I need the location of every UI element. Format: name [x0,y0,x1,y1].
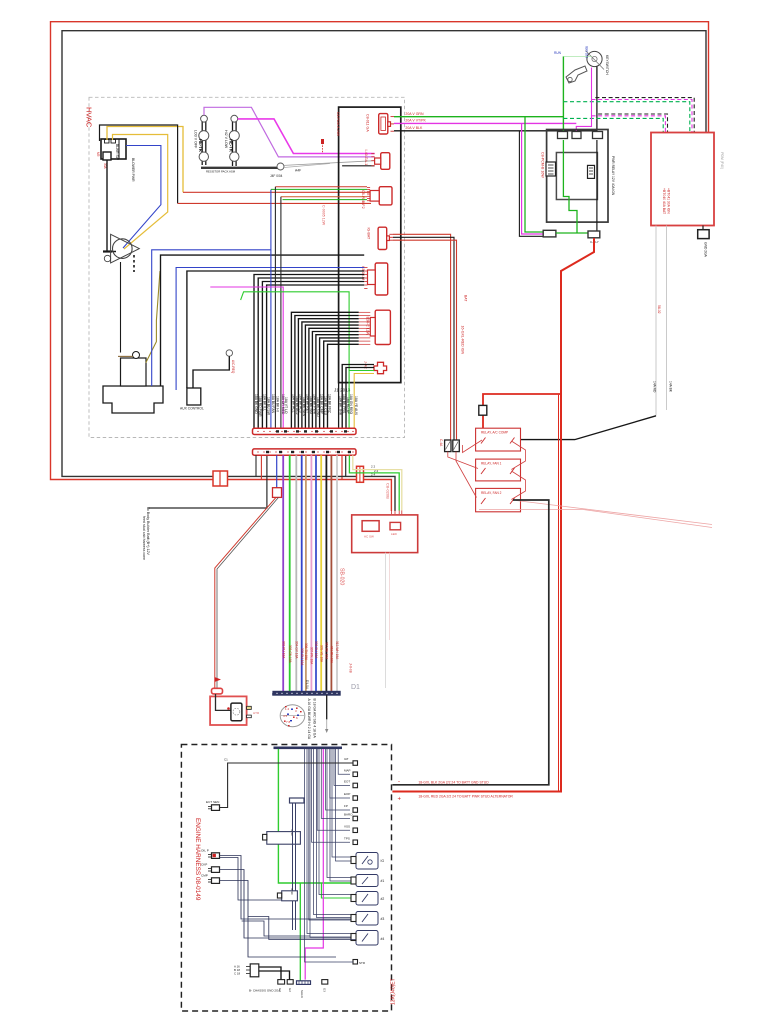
svg-text:TPS: TPS [344,837,350,841]
mode door actuator pedestal base [103,386,163,413]
svg-text:A 16 GA BLWR HI 2 14 GA: A 16 GA BLWR HI 2 14 GA [307,699,311,740]
dashed group2 magenta [592,116,666,133]
svg-text:18A BK GND: 18A BK GND [254,394,258,414]
wire red black pair diagonal to block heater [215,497,276,688]
ignition key switch circle [587,51,602,66]
svg-text:304-GY 18A: 304-GY 18A [294,641,298,659]
svg-text:HVAC: HVAC [85,107,94,128]
wire black connector5 row2 to aux [187,271,364,388]
wire yellow switch to junction [107,127,183,193]
coolant sensor connector [212,805,220,811]
svg-text:RELAY, FAN 2: RELAY, FAN 2 [481,491,502,495]
wire red connector4 c [393,240,457,440]
wire silver trunk [336,455,338,691]
svg-text:305-BU 18A: 305-BU 18A [300,648,304,666]
engine harness dashed box [181,745,391,1012]
svg-text:D1: D1 [351,684,360,691]
wire green connector7 stub [349,370,374,372]
wire red riser to batt bus [260,455,262,479]
blower motor ground dashes [133,255,135,272]
ground terminal 2 [287,980,293,985]
svg-text:18A BK RET: 18A BK RET [305,394,309,413]
wire red connector4 a [393,234,451,440]
connector C4 [378,227,387,249]
blower switch body [101,139,126,159]
dashed group1 green [563,102,689,133]
wire green link connectors [556,232,588,234]
svg-text:307-PK 18A: 307-PK 18A [310,647,314,665]
wire black motor to heater box [120,262,122,353]
wire yellow connector7 [354,374,374,429]
svg-text:IG-BAT: IG-BAT [367,228,371,241]
svg-text:HE-TR: HE-TR [198,139,203,152]
svg-text:B 18 GA A/C SIG 4 18 GA: B 18 GA A/C SIG 4 18 GA [313,699,317,739]
svg-text:HE-TR: HE-TR [229,139,234,152]
injector box 4 [356,912,378,926]
svg-text:KEYSWITCH: KEYSWITCH [605,55,609,75]
connector C3 [379,187,392,205]
shielded cable cap [290,798,305,803]
wire black riser to ground bus [255,455,257,476]
wire yellow trunk [320,455,322,691]
svg-text:G3: G3 [323,988,327,992]
wire mesh run a [220,858,282,901]
wire magenta connector1 [394,122,576,124]
svg-text:C-4A: C-4A [439,439,443,447]
svg-text:308-BU 18A: 308-BU 18A [314,641,318,659]
svg-text:18A VT LO: 18A VT LO [284,397,288,414]
crank sensor connector [212,867,220,873]
svg-text:18-GXL BLK 2GA 2/2 24 TO BATT: 18-GXL BLK 2GA 2/2 24 TO BATT GND STUD [418,780,489,784]
cam sensor connector [212,878,220,884]
svg-text:BLWR SW: BLWR SW [115,144,119,161]
wire gray splice to connector2 [284,161,375,166]
node splice circle [277,163,284,170]
svg-text:16-GXL-RED IGN: 16-GXL-RED IGN [461,326,465,355]
pdm bottom connector [702,226,704,230]
wire black sensor to terminal row1 [220,763,354,808]
wire green branch to shield term [300,883,303,982]
svg-text:J4F 0/04: J4F 0/04 [270,174,283,178]
svg-text:A4F: A4F [295,169,301,173]
block heater red box [210,696,247,725]
wire gray pdm drop b [666,226,668,411]
injector box 5 [356,931,378,946]
svg-text:18A BU SW: 18A BU SW [267,397,271,416]
svg-text:303-GN 18A: 303-GN 18A [288,645,292,664]
wires module to ground terms [259,967,281,980]
relay solenoid box 1 [476,428,521,451]
svg-text:18A BK HI: 18A BK HI [275,396,279,412]
wire black connector1 [394,130,597,132]
svg-text:14A BK: 14A BK [669,381,673,393]
relay solenoid box 2 [476,459,521,481]
wire magenta riser [210,287,283,428]
wire brown heater [118,355,133,357]
svg-text:311-BN 18A: 311-BN 18A [330,646,334,664]
svg-text:M5: M5 [96,152,100,157]
relay box top connector c [593,132,603,139]
shield flat terminal [297,981,311,985]
heater element [231,703,242,721]
wire gray drop below AC box [385,553,387,688]
red jumper zigzags left [448,452,478,469]
wire ground black routed around page perimeter [62,31,706,511]
idle control outline [282,891,298,901]
wire green connector3 row2 [271,188,367,190]
wire pink sense b [479,510,712,528]
shielded cable pair [292,803,294,930]
svg-text:B30-C 12W: B30-C 12W [366,317,370,336]
svg-text:IGN SW: IGN SW [585,46,589,59]
wire cam sensor run [220,881,337,958]
relay b [588,165,595,178]
svg-text:I-40-GA-1: I-40-GA-1 [364,150,368,166]
wire black diagonal pdm to relay1 [513,416,656,440]
svg-text:ENGINE HARNESS 08-0149: ENGINE HARNESS 08-0149 [194,818,201,901]
wire mesh run b [248,917,356,940]
svg-text:#1: #1 [381,879,385,883]
wire red ignition feed thick [392,238,594,792]
svg-text:4 5: 4 5 [283,714,288,718]
inline connector C-020 on battery pair left [213,471,228,486]
svg-text:18A BK GND: 18A BK GND [316,397,320,417]
blower switch lower tab [103,152,111,160]
wire pale yellow staircase [353,455,402,510]
aux heater connector box [187,388,201,405]
wire green drop from column conn1 [525,117,543,232]
svg-text:18A BK CMP: 18A BK CMP [320,394,324,415]
svg-text:306-TN 18A: 306-TN 18A [304,643,308,661]
relay box top connector a [558,132,568,139]
svg-text:18A BK SIG: 18A BK SIG [309,396,313,414]
relay box bottom connector right [588,231,600,238]
svg-text:20A V BLK: 20A V BLK [405,126,423,130]
svg-text:18A YE AUX: 18A YE AUX [354,396,358,416]
wire tan trunk [305,455,307,691]
svg-text:GND 2GA: GND 2GA [704,242,708,258]
wire black relay3 to battery minus [392,500,548,785]
heater resistor column 1 rails [201,120,203,165]
svg-text:C8-PCM-B 16W: C8-PCM-B 16W [541,152,545,178]
bottom left sensor module [250,964,259,977]
svg-text:18A BK CLU: 18A BK CLU [324,396,328,416]
blower motor triangle mount [111,234,140,263]
injector box 2 [356,875,378,887]
bulkhead connector bar1 [253,428,357,434]
trunk wire labels red [281,641,339,666]
svg-text:PDM (F40): PDM (F40) [720,152,724,169]
svg-text:RELAY, FAN 1: RELAY, FAN 1 [481,461,502,465]
engine pass-through connector bar3 [273,691,340,695]
wire blue trunk a [301,455,303,691]
wire black connector5 row4 [258,278,364,428]
wire green rail to injector2 [278,749,356,883]
svg-text:SHLD: SHLD [300,990,304,998]
wire magenta drop [522,123,543,234]
svg-text:feed stud cab harness conn: feed stud cab harness conn [142,516,146,560]
wire blue loop to pedestal [152,250,271,386]
svg-text:D1-04: D1-04 [305,680,309,689]
svg-text:18A BK ILL: 18A BK ILL [262,394,266,411]
svg-text:A/C-REQ: A/C-REQ [231,360,235,374]
svg-text:B- CHASSIS GND 2GA: B- CHASSIS GND 2GA [249,989,280,993]
relay box bottom connector left [543,230,556,237]
svg-text:18A BK PRS: 18A BK PRS [342,394,346,414]
wire orange connector3 row4 [281,196,367,198]
red jumper zigzags right [511,441,525,470]
svg-text:2 2: 2 2 [371,464,376,468]
svg-text:PWR RELAY 12V 40A IGN: PWR RELAY 12V 40A IGN [611,156,615,196]
heater resistor column 2 loops [231,115,238,122]
svg-text:AC SW: AC SW [364,535,374,539]
svg-text:G2: G2 [288,988,292,992]
svg-text:SB-020: SB-020 [339,568,345,585]
svg-text:20A V GRN: 20A V GRN [405,112,424,116]
wire magenta solid jog to relay conn2 [576,68,591,134]
wire blue switch to blower motor [123,146,161,249]
svg-text:BARO: BARO [344,813,353,817]
key lever shape [566,66,587,83]
wire black riser b [280,197,282,428]
svg-text:EOT: EOT [344,780,350,784]
wire green riser [241,292,350,428]
wire green connector1 to relay box [394,116,563,118]
wire black riser bar2 to gnd bus [345,455,347,476]
svg-text:IAT: IAT [344,757,349,761]
starter terminal [353,960,358,965]
svg-text:310-BK 18A: 310-BK 18A [325,642,329,660]
pin ticks into AC box [391,511,401,515]
svg-text:2 4: 2 4 [371,473,376,477]
connector C7 cross [374,362,387,373]
wire purple trunk [282,455,284,691]
svg-text:18A RD PWR: 18A RD PWR [258,396,262,417]
bulkhead connector bar2 [253,449,357,455]
wire gray pdm drop a [655,226,657,416]
svg-text:18A BK AC3: 18A BK AC3 [298,394,302,413]
wire black key to relay box [596,67,598,132]
inline connector at block heater [212,688,223,694]
wire black inside heater box [216,694,232,710]
connector C2 [381,153,390,170]
svg-text:#2: #2 [381,897,385,901]
connector pinout text columns [307,699,317,740]
svg-text:7 8: 7 8 [286,720,291,724]
wire black riser a [274,187,276,429]
wire black switch down to motor [107,160,116,252]
svg-text:302-PU 18A: 302-PU 18A [281,641,285,659]
svg-text:HTR: HTR [253,711,260,715]
svg-text:HI2 V LOW: HI2 V LOW [224,130,228,149]
HVAC harness dashed boundary box [89,97,405,437]
svg-text:IG: IG [381,859,385,863]
injector feed wires navy [307,749,356,937]
svg-text:STR: STR [359,961,366,965]
AC control panel box [352,515,418,553]
heater core box [121,358,147,386]
wire to injector4 [220,856,357,920]
small sensor terminals right column [353,761,358,845]
wire black connector5 row5 [262,282,364,429]
svg-text:18A BK SEN: 18A BK SEN [302,397,306,417]
wire black connector5 row3 [254,275,364,429]
connector C1 [379,114,388,134]
svg-text:18A BK FRZ: 18A BK FRZ [328,394,332,413]
svg-text:18A BU FAN: 18A BU FAN [271,394,275,414]
svg-text:+BT041 30A IGN: +BT041 30A IGN [667,188,671,214]
dashed group1 black [595,98,694,133]
svg-text:ECT SEN: ECT SEN [206,800,219,804]
wire blue trunk b [315,455,317,691]
wire red riser bar2 to batt bus [341,455,343,480]
svg-text:RESISTOR PACK ASM: RESISTOR PACK ASM [206,169,236,173]
wire blue riser bundle [270,190,272,429]
relay solenoid box 3 [476,488,521,511]
wire blue riser to connector [276,455,278,488]
wire green branch to injector3 [321,883,356,898]
red triangle marker [215,677,222,682]
wire red to column connector3 row3 [183,191,371,193]
svg-text:312-WH 18A: 312-WH 18A [335,641,339,660]
wire magenta resistor2 to connector2 [238,119,375,154]
wire green connector3 row5 [283,199,368,201]
dashed group2 black [598,114,667,133]
inline connector B [453,440,460,452]
injector box 1 [356,853,378,870]
wire pink trunk [310,455,312,691]
wire to injector5 [220,870,357,939]
wire brown trunk [330,455,332,691]
wire black connector7 b [346,368,374,429]
relay junction box [547,130,608,223]
ground terminal 3 [322,980,328,985]
connector C5 [375,263,388,295]
svg-text:0.4C: 0.4C [290,889,294,896]
wire black connector4 b [393,237,454,440]
sensor return rows navy [305,749,356,962]
svg-text:18A BK AC2: 18A BK AC2 [295,396,299,415]
svg-text:18A GN REQ: 18A GN REQ [349,394,353,415]
HVAC control module column [339,107,401,383]
svg-text:AUX CONTROL: AUX CONTROL [180,407,204,411]
wire black connector7 a [342,365,374,429]
svg-text:14A RD: 14A RD [653,381,657,393]
wire black stub connector2 [342,165,375,167]
svg-text:LO3 V OFF: LO3 V OFF [194,130,198,149]
wire green accessory vertical [562,56,564,133]
svg-text:BAT: BAT [464,295,468,301]
svg-text:C1: C1 [224,758,228,762]
heater resistor column 2 rails [232,120,234,166]
svg-text:18-GXL RED 2GA 2/2 24 TO BATT: 18-GXL RED 2GA 2/2 24 TO BATT PWR STUD A… [418,795,513,799]
svg-text:OIL P: OIL P [201,849,209,853]
relay box top connector b [572,132,581,139]
ground terminal 1 [278,980,285,985]
oil pressure connector red tagged [212,853,220,859]
wire black trunk [325,455,327,691]
svg-text:309-YE 18A: 309-YE 18A [319,645,323,663]
injector box 3 [356,892,378,906]
connector C6 [375,310,390,344]
svg-text:C8-020B: C8-020B [386,483,391,499]
wire violet resistor1 to connector2 [204,107,375,157]
engine rail bus [274,747,343,750]
wire black column edge riser [338,383,340,429]
svg-text:18A BK PWR: 18A BK PWR [312,394,316,415]
wire black switch feed [100,125,178,203]
svg-text:C 18: C 18 [234,972,240,976]
wire red connector3 row1 [275,186,367,188]
wire black drop below bar3 [326,695,328,719]
red marker 5A [322,140,324,153]
blower motor circle [113,239,133,259]
round connector pin view [280,705,305,727]
svg-text:FP: FP [344,804,348,808]
wire black row upper a [161,255,365,386]
svg-text:18A BK AC1: 18A BK AC1 [291,394,295,413]
wire green inside relay box [563,140,577,233]
svg-text:VSS: VSS [344,825,350,829]
wire mesh run c [242,921,310,936]
relay box inner block [556,153,597,200]
svg-text:CMP: CMP [201,874,208,878]
wire red branch to relay1 [483,394,561,428]
dashed group2 green [563,118,663,132]
svg-text:58-02: 58-02 [657,305,661,314]
wire black connector5 row6 [267,285,365,428]
wires black connector6 nest [291,312,358,428]
splice node AC circle [226,350,232,356]
svg-text:EOP: EOP [344,792,350,796]
svg-text:LED: LED [391,532,398,536]
svg-text:#3: #3 [381,917,385,921]
svg-text:20A V VT/PK: 20A V VT/PK [405,119,426,123]
wire labels above bulkhead bar1 [254,394,358,417]
heater resistor column 1 loops [201,115,208,122]
wire black drop [519,131,543,237]
svg-text:-: - [398,779,400,785]
inline connector A [445,440,451,452]
wire pink sense a [516,501,712,525]
svg-text:18A BK THR: 18A BK THR [339,396,343,416]
wire red to column connector3 row6 [178,202,371,204]
wire green trunk [289,455,291,691]
wire battery positive red routed around page perimeter [51,22,709,511]
svg-text:13X(J40)ET: 13X(J40)ET [391,978,397,1005]
wire black to body builder stud [147,455,267,508]
svg-text:1 2: 1 2 [285,707,290,711]
relay a [546,162,556,176]
svg-text:+: + [398,797,402,803]
svg-text:CKP: CKP [201,863,207,867]
glow plug controller outline [267,832,301,845]
inline connector C-021 right staircase [357,466,364,482]
wire magenta rail to terminal [305,749,323,980]
svg-text:#4: #4 [381,937,385,941]
wire black key inside relay box [596,140,598,231]
svg-text:RELAY, A/C COMP: RELAY, A/C COMP [481,431,508,435]
svg-text:BLOWER PWR: BLOWER PWR [131,158,135,182]
svg-text:C8-PCM-A 24W: C8-PCM-A 24W [336,112,340,137]
resistor common bus bar [201,167,278,169]
svg-text:RUN: RUN [554,51,562,55]
wire yellow switch to blower motor [113,135,168,250]
wire gray trunk [295,455,297,691]
wire olive resistor to heater [146,271,160,363]
heater core circle [133,352,140,359]
svg-text:+BT040 40A BAT: +BT040 40A BAT [662,188,666,214]
